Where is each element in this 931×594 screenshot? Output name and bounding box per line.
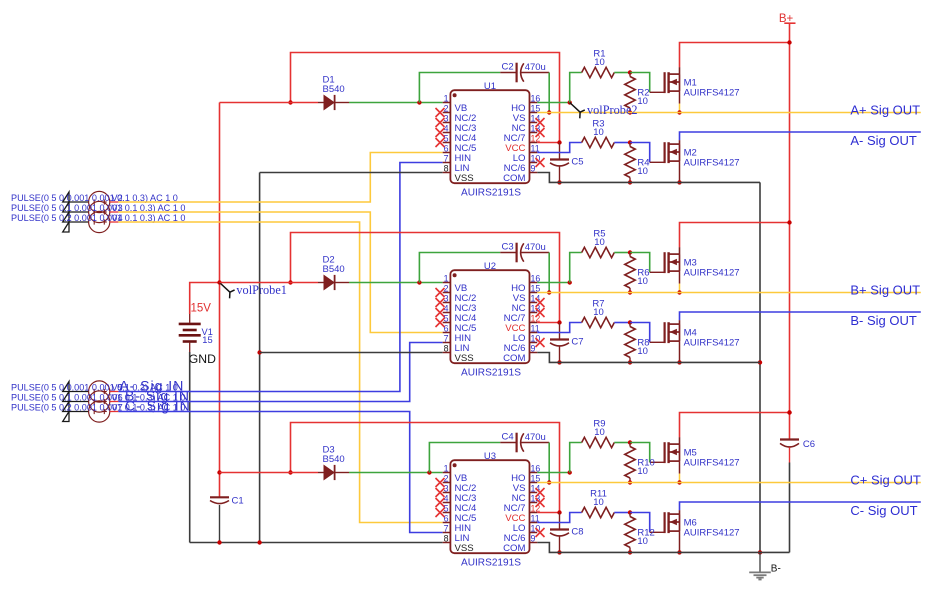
junction R8/COM [628, 360, 632, 364]
battery V1 15V [179, 283, 220, 353]
ground of sources V5-V7 [63, 382, 69, 422]
junction M3 source/VS [677, 290, 681, 294]
wire gate node to M4 [630, 323, 650, 343]
junction B+ C6 [787, 410, 791, 414]
junction VCC [557, 320, 561, 324]
svg-text:volProbe2: volProbe2 [587, 103, 638, 117]
svg-text:volProbe1: volProbe1 [236, 283, 287, 297]
no-connect X pin 4 [436, 128, 445, 137]
wire R3 to gate node 2 [614, 142, 630, 144]
svg-text:15: 15 [531, 474, 541, 484]
wire VB to C3 [419, 253, 500, 283]
capacitor C7 [550, 323, 569, 363]
wire C2 to VS [548, 73, 550, 113]
svg-text:11: 11 [531, 144, 540, 154]
junction VB tee [427, 470, 431, 474]
junction drain/B+ [787, 410, 791, 414]
no-connect X pin 3 [436, 488, 445, 497]
junction C1/bus [217, 540, 221, 544]
wire VSS vertical [259, 173, 261, 543]
resistor R3 10 [582, 137, 615, 147]
wire LIN U1 (blue) [118, 163, 442, 392]
voltage source V4 PULSE [69, 211, 118, 232]
wire C4 to VS [548, 443, 550, 483]
junction HO [568, 470, 572, 474]
wire D3 cathode to VB [349, 472, 443, 474]
junction M1 source/VS [677, 110, 681, 114]
junction rail/C1 [217, 470, 221, 474]
junction VB tee [417, 280, 421, 284]
svg-text:U1: U1 [484, 81, 496, 92]
wire GND bottom bus [190, 542, 443, 544]
wire gate node to M1 [630, 73, 650, 93]
svg-text:VSS: VSS [455, 173, 474, 184]
svg-text:10: 10 [594, 57, 605, 68]
wire HIN U2 (yellow) [118, 212, 442, 333]
svg-text:6: 6 [444, 144, 449, 154]
svg-text:C7: C7 [571, 337, 583, 348]
svg-text:A+ Sig OUT: A+ Sig OUT [850, 102, 920, 117]
svg-text:COM: COM [503, 543, 525, 554]
junction C8/COM [557, 550, 561, 554]
probe volProbe2 [570, 103, 585, 119]
wire gate node to M2 [630, 143, 650, 163]
svg-text:12: 12 [531, 314, 541, 324]
wire M2 drain / A- Sig OUT [679, 140, 681, 144]
capacitor C5 [550, 143, 569, 183]
op-amp/IC U1 AUIRS2191S [443, 90, 538, 183]
svg-text:12: 12 [531, 504, 541, 514]
wire HO up to R row [570, 253, 582, 283]
junction COM C / B- [758, 550, 762, 554]
svg-text:8: 8 [444, 164, 449, 174]
svg-text:B540: B540 [323, 454, 345, 465]
wire HIN U3 (yellow) [118, 222, 442, 523]
junction C5/COM [557, 180, 561, 184]
wire R7 to gate node 2 [614, 322, 630, 324]
ground B- [749, 552, 771, 579]
svg-text:470u: 470u [525, 432, 546, 443]
junction VB tee [417, 100, 421, 104]
svg-text:1: 1 [444, 464, 449, 474]
voltage source V7 PULSE [69, 401, 118, 422]
svg-text:16: 16 [531, 464, 541, 474]
voltage source V2 PULSE [69, 191, 118, 212]
svg-text:11: 11 [531, 514, 540, 524]
no-connect X pin 13 [536, 308, 545, 317]
wire VB to C2 [419, 73, 500, 103]
no-connect X pin 14 [536, 488, 545, 497]
wire M6 drain / C- Sig OUT [679, 510, 681, 514]
junction battery plus / rail [217, 280, 221, 284]
junction rail/D3 [288, 470, 292, 474]
junction R2/VS [628, 110, 632, 114]
wire HO [537, 472, 570, 474]
svg-text:10: 10 [594, 427, 605, 438]
svg-text:10: 10 [637, 346, 648, 357]
wire HO [537, 282, 570, 284]
wire HIN U1 (yellow) [118, 153, 442, 203]
svg-text:B540: B540 [323, 84, 345, 95]
wire VS / B+ Sig OUT [537, 292, 921, 294]
svg-text:16: 16 [531, 274, 541, 284]
junction VCC [557, 510, 561, 514]
voltage source V6 PULSE [69, 391, 118, 412]
svg-text:B540: B540 [323, 264, 345, 275]
wire COM bus right vertical [759, 182, 761, 552]
no-connect X pin 2 [436, 288, 445, 297]
svg-text:C4: C4 [502, 432, 514, 443]
wire D3 anode [220, 472, 319, 474]
wire VCC pin [537, 322, 559, 324]
svg-text:1: 1 [444, 94, 449, 104]
svg-text:10: 10 [637, 166, 648, 177]
junction gate node 2 [628, 140, 632, 144]
svg-text:6: 6 [444, 514, 449, 524]
no-connect X pin 2 [436, 478, 445, 487]
junction C/VS [547, 290, 551, 294]
no-connect X pin 14 [536, 118, 545, 127]
wire M5 drain to B+ [679, 437, 681, 444]
wire C3 to VS [548, 253, 550, 293]
transistor M3 AUIRFS4127 [665, 252, 680, 292]
svg-text:6: 6 [444, 324, 449, 334]
svg-text:GND: GND [189, 352, 216, 366]
wire VS / C+ Sig OUT [537, 482, 921, 484]
capacitor C3 470u [500, 243, 549, 263]
power flag B+ [779, 13, 796, 25]
svg-text:9: 9 [531, 534, 536, 544]
resistor R11 10 [582, 507, 615, 517]
no-connect X pin 10 [536, 338, 545, 347]
svg-text:COM: COM [503, 353, 525, 364]
wire LO [537, 323, 582, 333]
capacitor C1 [210, 473, 229, 543]
svg-text:AUIRFS4127: AUIRFS4127 [684, 338, 740, 349]
wire VSS block A [260, 172, 443, 174]
svg-text:10: 10 [637, 96, 648, 107]
resistor R10 10 [625, 443, 635, 483]
svg-text:AUIRFS4127: AUIRFS4127 [684, 88, 740, 99]
op-amp/IC U2 AUIRS2191S [443, 270, 538, 363]
no-connect X pin 3 [436, 118, 445, 127]
svg-text:10: 10 [637, 536, 648, 547]
resistor R2 10 [625, 73, 635, 113]
resistor R5 10 [582, 247, 615, 257]
transistor M6 AUIRFS4127 [665, 512, 680, 552]
svg-text:AUIRS2191S: AUIRS2191S [461, 557, 521, 568]
capacitor C8 [550, 513, 569, 553]
wire VB to C4 [429, 443, 500, 473]
no-connect X pin 4 [436, 308, 445, 317]
no-connect X pin 5 [436, 138, 445, 147]
svg-text:COM: COM [503, 173, 525, 184]
wire D1 anode [220, 102, 319, 104]
no-connect X pin 10 [536, 528, 545, 537]
svg-text:10: 10 [637, 276, 648, 287]
junction rail/D2 [288, 280, 292, 284]
svg-text:C6: C6 [803, 439, 815, 450]
junction gate node 2 [628, 510, 632, 514]
junction drain/B+ [787, 40, 791, 44]
junction C/VS [547, 110, 551, 114]
capacitor C2 470u [500, 63, 549, 83]
wire M1 drain to B+ [679, 67, 681, 74]
svg-text:7: 7 [444, 334, 449, 344]
diode D3 B540 [318, 465, 349, 480]
wire R11 to gate node 2 [614, 512, 630, 514]
svg-text:10: 10 [593, 127, 604, 138]
junction drain/B+ [787, 220, 791, 224]
junction R12/COM [628, 550, 632, 554]
svg-text:B- Sig OUT: B- Sig OUT [850, 313, 917, 328]
resistor R4 10 [625, 143, 635, 183]
svg-text:AUIRFS4127: AUIRFS4127 [684, 528, 740, 539]
svg-text:10: 10 [594, 237, 605, 248]
transistor M4 AUIRFS4127 [665, 322, 680, 362]
diode D2 B540 [318, 275, 349, 290]
svg-text:1: 1 [444, 274, 449, 284]
wire D1 cathode to VB [349, 102, 443, 104]
svg-text:15: 15 [202, 335, 212, 345]
svg-text:AUIRS2191S: AUIRS2191S [461, 187, 521, 198]
no-connect X pin 4 [436, 498, 445, 507]
wire battery minus to gnd bus [189, 352, 191, 543]
wire COM block C [537, 543, 789, 553]
voltage source V5 PULSE [69, 381, 118, 402]
svg-text:VSS: VSS [455, 543, 474, 554]
junction VSS bus [257, 540, 261, 544]
svg-text:10: 10 [637, 466, 648, 477]
wire R1 to gate node [614, 72, 630, 74]
junction M5 source/VS [677, 480, 681, 484]
resistor R8 10 [625, 323, 635, 363]
probe volProbe1 [220, 283, 235, 299]
wire COM block B [537, 353, 760, 363]
wire VSS block B [260, 352, 443, 354]
wire gate node to M3 [630, 253, 650, 273]
wire R9 to gate node [614, 442, 630, 444]
wire LIN U3 (blue) [118, 412, 442, 533]
resistor R1 10 [582, 67, 615, 77]
op-amp/IC U3 AUIRS2191S [443, 460, 538, 553]
svg-text:8: 8 [444, 344, 449, 354]
svg-text:7: 7 [444, 154, 449, 164]
svg-text:AUIRFS4127: AUIRFS4127 [684, 458, 740, 469]
wire HO up to R row [570, 443, 582, 473]
resistor R6 10 [625, 253, 635, 293]
svg-text:A- Sig OUT: A- Sig OUT [850, 133, 917, 148]
svg-text:15: 15 [531, 104, 541, 114]
diode D1 B540 [318, 95, 349, 110]
no-connect X pin 2 [436, 108, 445, 117]
svg-text:9: 9 [531, 164, 536, 174]
svg-text:C+ Sig OUT: C+ Sig OUT [850, 472, 920, 487]
no-connect X pin 13 [536, 498, 545, 507]
junction M2 source/COM [677, 180, 681, 184]
wire LIN U2 (blue) [118, 343, 442, 402]
wire M3 drain to B+ [679, 247, 681, 254]
wire VCC rail block C [291, 423, 560, 513]
no-connect X pin 3 [436, 298, 445, 307]
junction C7/COM [557, 360, 561, 364]
svg-text:B+ Sig OUT: B+ Sig OUT [850, 282, 920, 297]
svg-text:C2: C2 [502, 62, 514, 73]
svg-text:10: 10 [593, 497, 604, 508]
wire 15V left rail vertical [219, 103, 221, 473]
svg-text:C3: C3 [502, 242, 514, 253]
svg-text:15V: 15V [191, 302, 212, 314]
resistor R12 10 [625, 513, 635, 553]
voltage source V3 PULSE [69, 201, 118, 222]
svg-text:U3: U3 [484, 451, 496, 462]
junction C/VS [547, 480, 551, 484]
wire D2 cathode to VB [349, 282, 443, 284]
svg-text:AUIRFS4127: AUIRFS4127 [684, 268, 740, 279]
wire gate node to M6 [630, 513, 650, 533]
svg-text:16: 16 [531, 94, 541, 104]
svg-text:U2: U2 [484, 261, 496, 272]
svg-text:470u: 470u [525, 62, 546, 73]
svg-text:VSS: VSS [455, 353, 474, 364]
junction VCC [557, 140, 561, 144]
capacitor C6 [780, 440, 799, 553]
svg-text:AUIRS2191S: AUIRS2191S [461, 367, 521, 378]
capacitor C4 470u [500, 433, 549, 453]
transistor M1 AUIRFS4127 [665, 72, 680, 112]
wire LO [537, 143, 582, 153]
junction M4 source/COM [677, 360, 681, 364]
svg-text:AUIRFS4127: AUIRFS4127 [684, 158, 740, 169]
wire HO up to R row [570, 73, 582, 103]
junction gate node [628, 440, 632, 444]
junction COM B [758, 360, 762, 364]
svg-text:9: 9 [531, 344, 536, 354]
svg-text:8: 8 [444, 534, 449, 544]
transistor M2 AUIRFS4127 [665, 142, 680, 182]
wire COM block A [537, 173, 760, 183]
svg-text:C5: C5 [571, 157, 583, 168]
wire gate node to M5 [630, 443, 650, 463]
junction gate node 2 [628, 320, 632, 324]
junction rail/D1 [288, 100, 292, 104]
wire VS / A+ Sig OUT [537, 112, 921, 114]
svg-text:C- Sig OUT: C- Sig OUT [850, 503, 917, 518]
svg-text:7: 7 [444, 524, 449, 534]
junction VSS U2 [257, 350, 261, 354]
wire R5 to gate node [614, 252, 630, 254]
wire LO [537, 513, 582, 523]
junction R10/VS [628, 480, 632, 484]
junction HO [568, 280, 572, 284]
resistor R9 10 [582, 437, 615, 447]
wire VCC rail block A [291, 53, 560, 143]
svg-text:10: 10 [593, 307, 604, 318]
no-connect X pin 5 [436, 318, 445, 327]
svg-text:15: 15 [531, 284, 541, 294]
wire B+ rail [789, 23, 791, 439]
wire VCC pin [537, 142, 559, 144]
junction HO [568, 100, 572, 104]
junction R4/COM [628, 180, 632, 184]
transistor M5 AUIRFS4127 [665, 442, 680, 482]
svg-text:B-: B- [771, 563, 781, 574]
no-connect X pin 10 [536, 158, 545, 167]
svg-text:C8: C8 [571, 527, 583, 538]
svg-text:470u: 470u [525, 242, 546, 253]
resistor R7 10 [582, 317, 615, 327]
ground of sources V2-V4 [63, 192, 69, 232]
no-connect X pin 13 [536, 128, 545, 137]
wire HO [537, 102, 570, 104]
junction gate node [628, 70, 632, 74]
svg-text:12: 12 [531, 134, 541, 144]
wire D2 anode [220, 282, 319, 284]
svg-text:C1: C1 [232, 496, 244, 507]
wire VCC rail block B [291, 233, 560, 323]
no-connect X pin 14 [536, 298, 545, 307]
svg-text:11: 11 [531, 324, 540, 334]
junction gate node [628, 250, 632, 254]
wire VCC pin [537, 512, 559, 514]
junction M6 source/COM [677, 550, 681, 554]
no-connect X pin 5 [436, 508, 445, 517]
junction R6/VS [628, 290, 632, 294]
wire M4 drain / B- Sig OUT [679, 320, 681, 324]
